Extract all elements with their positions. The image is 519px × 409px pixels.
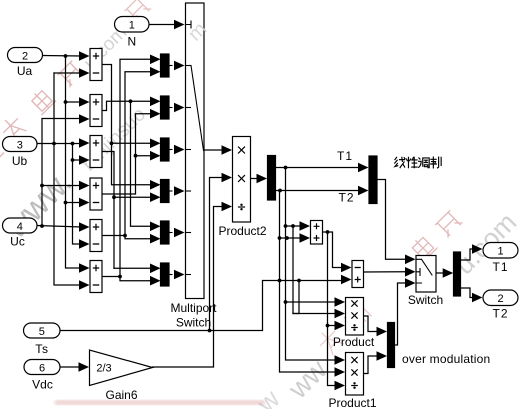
junction Ts branch (208, 329, 212, 333)
svg-text:6: 6 (39, 363, 45, 375)
sum block Sum5 (+ -) (90, 220, 102, 252)
arrowhead N selector (174, 20, 185, 30)
inport 5 Ts (24, 323, 61, 338)
junction Ts to v4 (297, 279, 301, 283)
inport 4 Uc (3, 218, 38, 233)
junction Uc (40, 224, 44, 228)
wire v2 stub to Add + input 1 (286, 225, 302, 227)
svg-text:1: 1 (129, 20, 135, 32)
inport 2 Ua (8, 48, 43, 63)
junction Ub2 (71, 142, 75, 146)
outport 2 T2 (483, 290, 518, 306)
junction v1 a (278, 236, 282, 240)
junction (40, 184, 44, 188)
mux block Mux6 (161, 263, 170, 286)
wire N to Multiport Switch selector (149, 24, 175, 26)
svg-text:Gain6: Gain6 (105, 388, 137, 402)
mux block overmodulation (388, 323, 395, 368)
wire Multiport Switch output to Product2 input 1 (204, 149, 223, 151)
wire Sum1 branch to Mux3 top (112, 142, 153, 144)
wire Ub branch to Mux6 top (113, 267, 115, 269)
switch block Switch (416, 256, 436, 293)
wire v4 vertical to Product input 2 (293, 281, 299, 314)
junction (64, 201, 68, 205)
junction v2 c (284, 300, 288, 304)
svg-text:2/3: 2/3 (96, 363, 111, 375)
sum block Sum1 (+ -) (90, 49, 102, 81)
arrowheads into overmodulation Mux (377, 327, 388, 337)
mux block Mux1 (161, 54, 170, 77)
arrowheads into small mux blocks (150, 55, 161, 286)
outport 1 T1 (483, 243, 518, 259)
junction Ua (64, 54, 68, 58)
wire v1 stub to Add + input 2 (280, 237, 302, 239)
svg-text:T2: T2 (492, 307, 508, 321)
junction T1 (284, 166, 288, 170)
sum block Add (+ +) (311, 221, 323, 245)
svg-text:N: N (127, 35, 136, 49)
demux block Demux1 (454, 252, 461, 296)
wire Sum4 output to Mux2 bottom (102, 114, 152, 194)
svg-text:Vdc: Vdc (32, 378, 53, 392)
junction (64, 100, 68, 104)
arrowhead Product2 to Demux (257, 174, 268, 184)
product block Product1 (346, 353, 364, 396)
wire overmodulation Mux output to Switch input 3 (395, 283, 407, 345)
wire Sum1 output to crossbar (102, 65, 152, 185)
watermark band 2 (0, 103, 150, 245)
mux block Mux3 (161, 138, 170, 161)
svg-text:T2: T2 (338, 191, 354, 205)
wire Switch output to output Demux (436, 272, 444, 274)
wire stub to Product divide input (328, 325, 337, 327)
wire Sum3 branch to Mux4 bottom (114, 196, 152, 198)
mux block Mux5 (161, 221, 170, 244)
watermark band 3 (250, 207, 519, 409)
wire linear Mux output to Switch input 1 (377, 180, 406, 260)
wire v2 stub to Product input 1 (286, 301, 337, 303)
junction v2 a (284, 224, 288, 228)
arrowhead Vdc to Gain6 (79, 362, 90, 372)
wire Sum4 branch to Mux3 bottom (136, 155, 153, 157)
junction Ub (52, 142, 56, 146)
arrowheads into Product1 (335, 355, 346, 365)
sum block Subtract (- +) (352, 261, 364, 288)
label linear modulation (CJK) (395, 157, 441, 168)
junction v1 b (285, 236, 289, 240)
wire Ub branch 2 (73, 144, 82, 245)
wire Uc to Sum4 + (42, 185, 81, 187)
svg-text:Product: Product (333, 335, 375, 349)
svg-text:3: 3 (17, 140, 23, 152)
arrowheads into outports (472, 244, 483, 254)
junction Ts crossing (278, 279, 282, 283)
watermark band 1 (0, 0, 151, 167)
arrowheads into sum blocks (79, 51, 90, 290)
arrowheads into Switch (405, 255, 416, 265)
wire divide chain vertical (328, 232, 337, 386)
junction T2 (278, 189, 282, 193)
wire Demux to outport 2 (462, 288, 474, 298)
svg-text:Ua: Ua (17, 64, 33, 78)
junction Sum1 split (110, 141, 114, 145)
product block Product2 (233, 137, 251, 223)
demux block Demux (268, 156, 276, 201)
wire Sum5 branch to Mux5 bottom (125, 236, 152, 239)
wire Gain6 output up to Product2 input 3 (153, 207, 223, 368)
arrowheads mux outputs into Multiport Switch (169, 61, 185, 280)
arrowheads into Product2 (222, 145, 233, 211)
inport 3 Ub (3, 137, 38, 152)
svg-text:T1: T1 (492, 260, 508, 274)
mux block linear modulation (369, 156, 377, 204)
wire Sum3 output to crossbar (102, 152, 152, 269)
junction Sum3 split (112, 195, 116, 199)
svg-text:4: 4 (17, 221, 23, 233)
junction Add split (326, 230, 330, 234)
junction v2 b (291, 224, 295, 228)
wire Demux to outport 1 (462, 249, 474, 260)
arrowheads into Product (335, 297, 346, 307)
wire Ua from port 2 to Sum1 + input (43, 55, 82, 58)
svg-text:Ub: Ub (12, 154, 28, 168)
wire v3 vertical (293, 226, 336, 314)
svg-text:Switch: Switch (408, 293, 443, 307)
arrowheads into Subtract (341, 263, 352, 273)
wire Uc vertical branch up (42, 119, 81, 227)
svg-text:Multiport: Multiport (170, 301, 217, 315)
wire Subtract output to Switch input 2 (364, 271, 407, 273)
arrowheads into Add (300, 221, 311, 231)
svg-text:T1: T1 (337, 149, 353, 163)
wire Product2 output to Demux (251, 178, 258, 180)
inport 1 N (115, 17, 150, 33)
mux block Mux2 (161, 96, 170, 119)
sum block Sum4 (+ -) (90, 178, 102, 210)
junction (71, 158, 75, 162)
product block Product (346, 298, 364, 336)
svg-text:over modulation: over modulation (402, 352, 490, 366)
mux block Mux4 (161, 180, 170, 203)
wire Sum6 branch to Mux6 bottom (120, 277, 152, 281)
wire Ts from port 5 (60, 281, 343, 331)
wire Ts branch up to Product2 input 2 (210, 178, 223, 331)
wire Sum5 output to Mux1 bottom (102, 72, 152, 236)
wire Add output (323, 232, 343, 268)
wire Ub to Sum3 - (73, 159, 82, 161)
junction Sum4 split (134, 154, 138, 158)
arrowhead Switch to Demux (443, 268, 454, 278)
wire Ua to Sum2 + (66, 101, 82, 103)
wire Ua to Sum4 - (66, 202, 82, 204)
multiport switch block (186, 3, 205, 299)
wire T2 from Demux to linear Mux (276, 190, 360, 192)
wire Product1 output to overmodulation Mux (364, 356, 378, 374)
inport 6 Vdc (24, 360, 60, 375)
wire Ua vertical branch (66, 56, 82, 268)
gain block Gain6 (2/3) (90, 350, 153, 386)
wire Sum2 output to Mux2 top (102, 101, 152, 110)
svg-text:2: 2 (22, 51, 28, 63)
wire T1 from Demux to linear Mux (276, 167, 360, 169)
wire T1 branch vertical to sum and products (286, 168, 337, 361)
junction divide chain (326, 324, 330, 328)
watermark bottom streak (55, 400, 265, 405)
wire Ub vertical branch (54, 72, 81, 74)
svg-text:2: 2 (497, 293, 503, 305)
wire T2 branch vertical (280, 191, 337, 373)
wire Product output to overmodulation Mux (364, 316, 378, 332)
wire Uc from port 4 to Sum5 + input (37, 226, 81, 228)
junction Sum2 split (129, 99, 133, 103)
svg-text:Product1: Product1 (328, 396, 376, 409)
svg-text:Ts: Ts (35, 342, 49, 356)
arrowheads T1 T2 into linear Mux (358, 163, 369, 173)
svg-text:Product2: Product2 (218, 224, 266, 238)
wire Sum2 branch to Mux5 top (131, 101, 153, 226)
svg-text:Switch: Switch (176, 316, 211, 330)
sum block Sum2 (+ -) (90, 95, 102, 127)
junction Sum5 split (123, 234, 127, 238)
junction Sum6 split (118, 275, 122, 279)
svg-text:5: 5 (39, 326, 45, 338)
sum block Sum6 (+ -) (90, 261, 102, 293)
wire Sum6 output to Mux1 top (102, 59, 152, 276)
svg-text:1: 1 (497, 246, 503, 258)
wire Vdc to Gain6 (60, 366, 80, 368)
svg-text:Uc: Uc (10, 235, 25, 249)
sum block Sum3 (+ -) (90, 136, 102, 168)
wire Ub from port 3 to Sum3 + input (37, 143, 81, 145)
